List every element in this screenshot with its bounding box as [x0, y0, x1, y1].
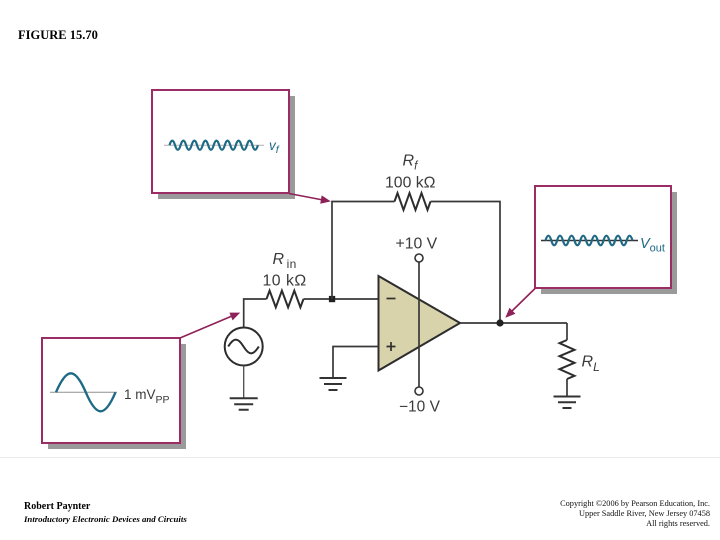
wire: Rin to op-amp inverting input	[304, 298, 380, 300]
leader arrow from vf box to feedback wire	[289, 194, 323, 201]
resistor Rin zigzag	[267, 291, 304, 308]
vf ripple waveform	[170, 141, 258, 150]
credit: book title	[24, 514, 187, 524]
wire: RL bottom	[566, 379, 568, 396]
ground (source)	[230, 398, 258, 410]
svg-text:Rin: Rin	[273, 251, 297, 271]
resistor RL zigzag	[560, 340, 575, 379]
node: output	[496, 319, 503, 326]
callout box vf	[152, 90, 289, 193]
svg-text:RL: RL	[582, 354, 600, 375]
wire: op-amp output	[460, 322, 567, 324]
vf baseline	[164, 144, 264, 146]
wire: RL top	[566, 323, 568, 340]
terminal +10V	[415, 254, 423, 262]
1mV baseline	[50, 391, 117, 393]
wire: non-inverting input to ground	[333, 347, 379, 378]
callout box 1mVpp	[42, 338, 180, 443]
wire: feedback left vertical	[332, 202, 395, 300]
svg-text:−10 V: −10 V	[399, 399, 441, 416]
leader arrow from vout box to output node	[512, 289, 535, 312]
node: junction at inverting input	[329, 296, 335, 302]
callout box vout	[535, 186, 671, 288]
svg-text:100 kΩ: 100 kΩ	[385, 175, 436, 192]
ground (non-inverting input)	[320, 378, 347, 390]
callout box 1mVpp (shadow)	[48, 344, 186, 449]
1mV sine waveform	[56, 373, 116, 411]
wire: source top to Rin	[244, 299, 267, 328]
credit: author	[24, 501, 90, 512]
wire: source to ground	[243, 366, 245, 399]
op-amp plus sign	[387, 342, 396, 351]
wire: feedback top right	[431, 202, 501, 324]
figure title	[18, 28, 98, 43]
ground (RL)	[554, 397, 581, 409]
vout ripple waveform	[546, 236, 633, 246]
source sine symbol	[228, 340, 259, 354]
terminal -10V	[415, 387, 423, 395]
leader arrow from 1mV box to input wire	[180, 316, 232, 338]
op-amp minus sign	[387, 298, 396, 300]
source V1 (AC)	[225, 328, 263, 366]
wire: supply rail through op-amp	[418, 262, 420, 387]
svg-text:10 kΩ: 10 kΩ	[263, 273, 307, 290]
vout baseline	[541, 240, 638, 242]
op-amp U1	[379, 276, 461, 371]
svg-text:Rf: Rf	[403, 153, 420, 173]
svg-text:+10 V: +10 V	[396, 236, 438, 253]
resistor Rf zigzag	[395, 193, 431, 210]
copyright block	[560, 499, 710, 530]
callout box vf (shadow)	[158, 96, 295, 199]
callout box vout (shadow)	[541, 192, 677, 294]
faint footer separator line	[0, 457, 720, 459]
